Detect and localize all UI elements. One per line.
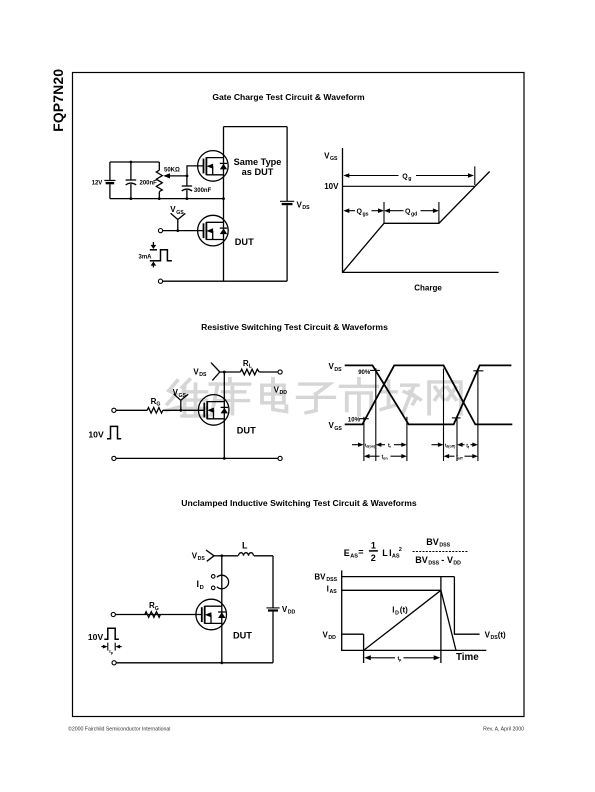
svg-text:DUT: DUT bbox=[235, 237, 254, 247]
svg-text:DD: DD bbox=[328, 635, 336, 641]
transistor U1 Same Type as DUT bbox=[198, 151, 229, 182]
pulse symbol for 3mA source bbox=[157, 250, 172, 261]
terminal: bottom left bbox=[112, 456, 116, 460]
svg-text:on: on bbox=[383, 457, 388, 461]
svg-text:AS: AS bbox=[392, 554, 400, 560]
formula EAS bbox=[344, 537, 468, 567]
wire: right branch lower bbox=[272, 612, 274, 663]
svg-text:DSS: DSS bbox=[439, 543, 450, 549]
line: IAS level bbox=[342, 589, 441, 591]
svg-text:Charge: Charge bbox=[414, 284, 442, 293]
svg-text:DD: DD bbox=[453, 561, 461, 567]
op loop: DUT drain-source main vertical line bbox=[223, 127, 225, 282]
svg-text:G: G bbox=[156, 402, 160, 408]
svg-text:d(off): d(off) bbox=[446, 445, 456, 449]
label 10V with pulse bbox=[88, 628, 119, 642]
svg-text:GS: GS bbox=[176, 210, 184, 216]
wire: inductor to right branch bbox=[254, 555, 273, 557]
arrow tr bbox=[376, 443, 407, 450]
svg-text:gd: gd bbox=[411, 211, 417, 217]
svg-text:10V: 10V bbox=[88, 632, 104, 642]
terminal: bottom left bbox=[112, 661, 116, 665]
tick: pulse end vertical bbox=[440, 577, 442, 663]
label BVDSS bbox=[314, 572, 337, 583]
arrow into td(off) bbox=[432, 443, 457, 449]
waveform1 axes bbox=[343, 148, 499, 272]
waveform2 label VDS bbox=[329, 362, 343, 373]
svg-text:DUT: DUT bbox=[233, 630, 252, 640]
svg-text:Unclamped Inductive Switching: Unclamped Inductive Switching Test Circu… bbox=[181, 498, 417, 508]
junction dots on supply rails bbox=[130, 161, 133, 164]
svg-text:GS: GS bbox=[330, 156, 338, 162]
svg-text:DS: DS bbox=[302, 205, 310, 211]
curve: ID decay bbox=[441, 590, 456, 650]
wire: gate drive to DUT bbox=[163, 230, 204, 232]
svg-text:Rev. A, April 2000: Rev. A, April 2000 bbox=[483, 727, 524, 733]
svg-text:DS: DS bbox=[199, 372, 207, 378]
wire: drain-source vertical bbox=[223, 372, 225, 458]
svg-text:DD: DD bbox=[280, 390, 288, 396]
terminal: VDD supply bbox=[278, 370, 282, 374]
svg-text:r: r bbox=[390, 445, 392, 449]
svg-text:10V: 10V bbox=[324, 182, 339, 191]
terminal: gate input bbox=[158, 229, 162, 233]
tick: Qgd end bbox=[438, 202, 440, 224]
svg-text:p: p bbox=[111, 651, 114, 655]
svg-text:10V: 10V bbox=[88, 429, 104, 439]
tick T3 bbox=[406, 417, 408, 461]
curve: gate charge waveform bbox=[343, 172, 490, 273]
wire: right branch upper bbox=[272, 556, 274, 608]
svg-text:200nF: 200nF bbox=[140, 180, 158, 186]
svg-text:BV: BV bbox=[426, 537, 439, 547]
watermark char 2 bbox=[210, 379, 249, 415]
arrow tp bbox=[364, 655, 440, 662]
label 10V with pulse bbox=[88, 426, 121, 439]
svg-text:GS: GS bbox=[334, 426, 342, 432]
potentiometer 50KOhm bbox=[156, 162, 187, 199]
watermark char 4 bbox=[298, 384, 335, 413]
current source 3mA bbox=[139, 242, 158, 267]
svg-text:BV: BV bbox=[415, 555, 428, 565]
svg-text:I: I bbox=[392, 606, 394, 615]
tick T4 bbox=[443, 369, 445, 462]
node: source to rail bbox=[223, 457, 226, 460]
wire: loop top side bbox=[224, 126, 288, 128]
svg-text:G: G bbox=[155, 606, 159, 612]
svg-text:gs: gs bbox=[363, 211, 369, 217]
tick T5 bbox=[456, 417, 458, 461]
wire: wiper node to gate of upper MOSFET bbox=[187, 166, 204, 176]
arrow into td(on) bbox=[352, 443, 376, 449]
arrow toff bbox=[444, 454, 478, 461]
svg-text:(t): (t) bbox=[498, 630, 506, 639]
svg-text:DS: DS bbox=[198, 556, 206, 562]
tick: Qgs end bbox=[383, 202, 385, 224]
resistor RG bbox=[147, 397, 163, 413]
wire: RG to DUT gate bbox=[163, 409, 205, 411]
svg-text:AS: AS bbox=[330, 589, 338, 595]
terminal: gate input bbox=[112, 408, 116, 412]
arrow Qgd bbox=[384, 208, 439, 217]
tick: 10% level right bbox=[452, 417, 461, 419]
svg-text:DS: DS bbox=[334, 367, 342, 373]
annotation tp under pulse bbox=[101, 643, 121, 655]
wire: drain-source vertical bbox=[221, 556, 223, 663]
tick T2 bbox=[375, 368, 377, 461]
waveform2 label VGS bbox=[329, 421, 343, 432]
svg-text:DSS: DSS bbox=[428, 561, 439, 567]
label VDD left bbox=[323, 630, 337, 641]
watermark char 6 bbox=[381, 381, 420, 413]
svg-text:off: off bbox=[458, 457, 464, 461]
wire: bottom rail bbox=[116, 662, 273, 664]
svg-text:12V: 12V bbox=[92, 180, 103, 186]
svg-text:Same Type: Same Type bbox=[234, 157, 282, 167]
curve: VGS trace bbox=[345, 365, 513, 424]
svg-text:L: L bbox=[242, 541, 248, 551]
svg-text:-: - bbox=[441, 555, 444, 565]
arrow ton bbox=[364, 454, 407, 461]
wire: top rail of gate-drive supply bbox=[110, 161, 159, 163]
tick: pulse start vertical bbox=[363, 634, 365, 663]
svg-text:p: p bbox=[399, 658, 402, 662]
waveform3 axes bbox=[342, 570, 487, 650]
svg-text:L: L bbox=[382, 548, 388, 558]
svg-text:DSS: DSS bbox=[326, 577, 337, 583]
battery VDS supply bbox=[280, 200, 310, 211]
svg-text:2: 2 bbox=[399, 547, 402, 553]
svg-text:AS: AS bbox=[350, 554, 358, 560]
resistor RL bbox=[224, 359, 278, 375]
wire: loop right side upper bbox=[286, 127, 288, 202]
wire: bottom rail bbox=[116, 457, 278, 459]
tick T1 bbox=[363, 417, 365, 461]
terminal: bottom right bbox=[278, 456, 282, 460]
transistor DUT bbox=[196, 599, 227, 630]
border frame bbox=[73, 73, 525, 717]
arrow Qg bbox=[343, 173, 474, 182]
watermark char 7 bbox=[429, 382, 461, 414]
probe VGS bbox=[173, 388, 189, 412]
wire: bottom rail of gate-drive supply bbox=[110, 198, 224, 200]
svg-text:D: D bbox=[395, 610, 399, 616]
node: drain top bbox=[220, 554, 223, 557]
svg-text:D: D bbox=[200, 585, 204, 591]
tick T6 bbox=[477, 369, 479, 461]
line: VDD level and step bbox=[342, 633, 364, 635]
label ID(t) bbox=[392, 606, 408, 617]
transistor DUT bbox=[198, 215, 229, 246]
watermark char 3 bbox=[262, 379, 286, 412]
probe VGS bbox=[170, 205, 185, 232]
svg-text:DD: DD bbox=[288, 610, 296, 616]
wire: gate drive bbox=[116, 409, 147, 411]
watermark char 1 bbox=[166, 380, 207, 416]
svg-text:(t): (t) bbox=[400, 606, 408, 615]
terminal: source return bbox=[158, 279, 162, 283]
wire: source return bbox=[163, 280, 224, 282]
svg-text:90%: 90% bbox=[358, 370, 371, 376]
svg-text:300nF: 300nF bbox=[194, 188, 212, 194]
label VDS(t) bbox=[485, 630, 506, 641]
curve: VDS high left bbox=[345, 365, 512, 424]
svg-text:FQP7N20: FQP7N20 bbox=[51, 69, 66, 132]
node: wiper junction bbox=[186, 175, 189, 178]
line: 10V level bbox=[343, 185, 475, 187]
curve: VDS settling bbox=[454, 577, 479, 635]
inductor L bbox=[239, 541, 254, 556]
wire: gate drive bbox=[115, 614, 201, 616]
svg-text:g: g bbox=[408, 176, 411, 182]
tick: 90% level left bbox=[370, 369, 380, 371]
svg-text:f: f bbox=[468, 446, 470, 450]
battery 12V bbox=[92, 162, 116, 199]
node: source to rail bbox=[220, 661, 223, 664]
svg-text:©2000 Fairchild Semiconductor: ©2000 Fairchild Semiconductor Internatio… bbox=[68, 726, 170, 733]
svg-text:2: 2 bbox=[371, 553, 376, 563]
tick: Qg end bbox=[474, 166, 476, 185]
line: BVDSS level bbox=[342, 576, 455, 578]
probe VDS bbox=[192, 550, 222, 562]
wire: loop right side lower bbox=[286, 205, 288, 281]
node: drain top bbox=[223, 371, 226, 374]
capacitor 200nF bbox=[126, 162, 158, 199]
tick: 10% level left bbox=[359, 418, 369, 420]
svg-text:10%: 10% bbox=[348, 418, 361, 424]
svg-text:E: E bbox=[344, 548, 350, 558]
tick: 90% level right bbox=[473, 370, 483, 372]
curve: ID ramp bbox=[364, 590, 441, 650]
wire: top node to inductor bbox=[222, 555, 238, 557]
arrow tf bbox=[457, 443, 478, 450]
svg-text:d(on): d(on) bbox=[366, 445, 376, 449]
svg-text:Time: Time bbox=[456, 652, 479, 663]
svg-text:GS: GS bbox=[179, 393, 187, 399]
svg-text:Resistive Switching Test Circu: Resistive Switching Test Circuit & Wavef… bbox=[201, 322, 388, 332]
terminal: gate input bbox=[111, 612, 115, 616]
transistor DUT bbox=[198, 395, 229, 426]
battery VDD bbox=[266, 605, 295, 616]
svg-text:V: V bbox=[447, 555, 453, 565]
current probe ID bbox=[197, 575, 229, 591]
svg-text:DUT: DUT bbox=[237, 425, 256, 435]
svg-text:50KΩ: 50KΩ bbox=[164, 168, 180, 174]
svg-text:3mA: 3mA bbox=[139, 254, 153, 260]
svg-text:as DUT: as DUT bbox=[242, 167, 274, 177]
watermark char 5 bbox=[341, 379, 378, 415]
capacitor 300nF bbox=[182, 176, 212, 199]
svg-text:I: I bbox=[327, 584, 329, 593]
label IAS bbox=[327, 584, 338, 595]
arrow Qgs bbox=[343, 208, 384, 217]
probe VDS bbox=[193, 363, 224, 381]
svg-text:Gate Charge Test Circuit & Wav: Gate Charge Test Circuit & Waveform bbox=[212, 92, 365, 102]
svg-text:1: 1 bbox=[371, 541, 376, 551]
wire: loop bottom side bbox=[224, 280, 288, 282]
svg-text:BV: BV bbox=[314, 572, 326, 581]
resistor RG bbox=[145, 601, 161, 617]
svg-text:=: = bbox=[358, 547, 363, 557]
